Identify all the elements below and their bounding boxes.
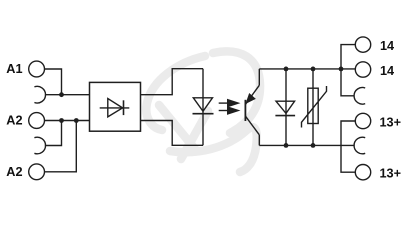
- wire junction to A2 bottom: [45, 121, 77, 172]
- terminal 13+ circle (row 4): [355, 113, 370, 128]
- varistor RU branch: [302, 69, 327, 145]
- junction dots: [59, 67, 343, 148]
- svg-text:14: 14: [380, 64, 394, 78]
- output top bus: [259, 68, 355, 70]
- node diode top: [284, 67, 289, 72]
- svg-text:A2: A2: [6, 114, 22, 128]
- terminal bridge arc (right, row 3): [354, 88, 365, 105]
- wire box output bottom step: [141, 121, 204, 146]
- wire A2 to rectifier box input: [45, 120, 90, 122]
- wire box output top step: [141, 69, 204, 95]
- diode D1 inside box: [100, 99, 130, 117]
- node diode bottom: [284, 143, 289, 148]
- wire junction to arc2: [45, 121, 62, 146]
- wire right terminal group bottom: [341, 121, 355, 172]
- terminal 14 circle (row 1): [355, 37, 370, 52]
- svg-text:A1: A1: [6, 62, 22, 76]
- terminal A2 circle (row 5): [29, 164, 45, 180]
- freewheeling diode D2 branch: [275, 69, 295, 145]
- LED vertical wire: [202, 69, 204, 146]
- terminal 14 circle (row 2): [355, 62, 370, 77]
- terminal A2 circle (row 3): [29, 113, 45, 129]
- optocoupler light arrows: [219, 100, 239, 114]
- output bottom bus: [259, 144, 354, 146]
- terminal 13+ circle (row 6): [355, 165, 370, 180]
- node terminal 14 junction: [339, 67, 344, 72]
- node A2/A2 junction: [74, 118, 79, 123]
- terminal A1 circle: [29, 61, 45, 77]
- svg-text:14: 14: [380, 39, 394, 53]
- terminal bridge arc (left, row 2): [34, 86, 45, 103]
- LED D3: [193, 98, 214, 114]
- wire A1 stub: [45, 69, 62, 95]
- svg-text:A2: A2: [6, 165, 22, 179]
- phototransistor Q1: [245, 69, 259, 145]
- wire right terminal group top: [341, 45, 355, 96]
- rectifier box U1: [90, 82, 141, 131]
- terminal bridge arc (right, row 5): [354, 137, 365, 154]
- watermark logo: [146, 51, 260, 172]
- node A2/arc junction: [59, 118, 64, 123]
- node varistor top: [311, 67, 316, 72]
- node varistor bottom: [311, 143, 316, 148]
- svg-text:13+: 13+: [380, 167, 402, 181]
- svg-text:13+: 13+: [380, 115, 402, 129]
- node A1/arc junction: [59, 92, 64, 97]
- terminal bridge arc (left, row 4): [34, 137, 45, 154]
- wire arc1 to rectifier box input: [45, 94, 90, 96]
